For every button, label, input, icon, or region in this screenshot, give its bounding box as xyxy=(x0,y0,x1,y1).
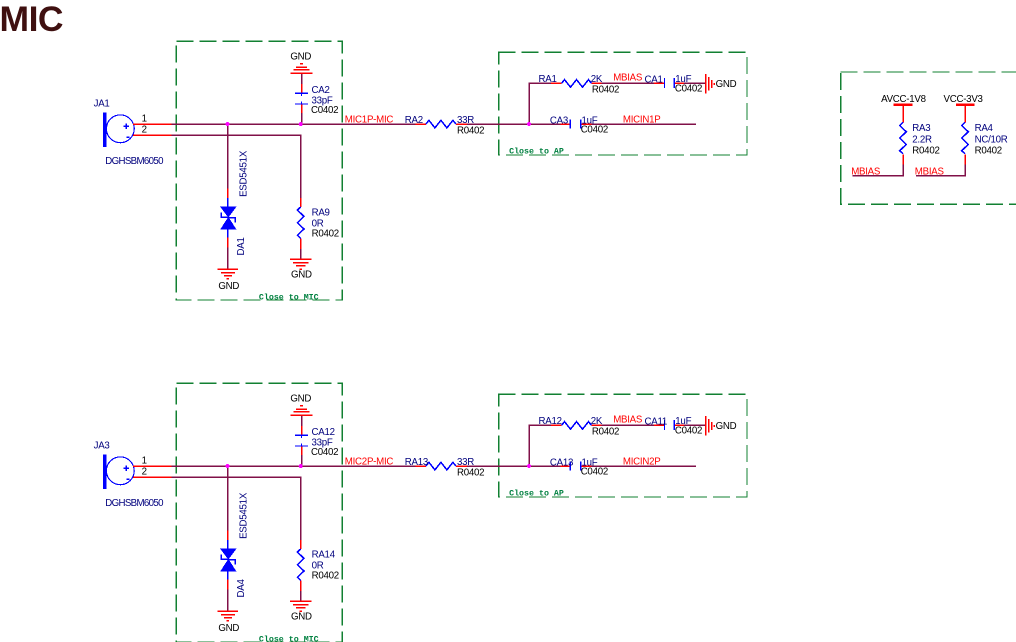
svg-text:RA2: RA2 xyxy=(405,115,423,126)
svg-text:RA14: RA14 xyxy=(312,549,336,560)
svg-text:RA3: RA3 xyxy=(912,123,930,134)
svg-text:CA2: CA2 xyxy=(312,85,330,96)
svg-text:2.2R: 2.2R xyxy=(912,134,932,145)
svg-text:RA1: RA1 xyxy=(539,74,557,85)
svg-text:CA11: CA11 xyxy=(645,416,668,427)
svg-text:MICIN2P: MICIN2P xyxy=(623,456,661,467)
svg-text:NC/10R: NC/10R xyxy=(975,134,1008,145)
svg-text:CA3: CA3 xyxy=(550,115,568,126)
svg-text:MBIAS: MBIAS xyxy=(915,167,945,178)
svg-text:JA1: JA1 xyxy=(94,99,110,110)
svg-text:DGHSBM6050: DGHSBM6050 xyxy=(105,156,164,167)
svg-text:MBIAS: MBIAS xyxy=(851,167,881,178)
svg-text:RA9: RA9 xyxy=(312,207,330,218)
svg-text:CA12: CA12 xyxy=(312,427,335,438)
svg-text:JA3: JA3 xyxy=(94,441,110,452)
svg-text:DA4: DA4 xyxy=(236,579,247,598)
svg-text:MIC: MIC xyxy=(0,0,63,39)
svg-text:DGHSBM6050: DGHSBM6050 xyxy=(105,498,164,509)
svg-text:R0402: R0402 xyxy=(912,145,939,156)
svg-text:RA4: RA4 xyxy=(975,123,994,134)
svg-text:CA13: CA13 xyxy=(550,457,573,468)
svg-text:MICIN1P: MICIN1P xyxy=(623,114,661,125)
svg-text:DA1: DA1 xyxy=(236,237,247,255)
svg-text:VCC-3V3: VCC-3V3 xyxy=(944,94,983,105)
svg-text:R0402: R0402 xyxy=(975,145,1002,156)
svg-text:MIC2P-MIC: MIC2P-MIC xyxy=(345,457,394,468)
svg-text:RA13: RA13 xyxy=(405,457,428,468)
svg-text:RA12: RA12 xyxy=(539,416,562,427)
svg-text:AVCC-1V8: AVCC-1V8 xyxy=(881,94,926,105)
svg-text:MIC1P-MIC: MIC1P-MIC xyxy=(345,115,394,126)
svg-text:CA1: CA1 xyxy=(645,74,663,85)
